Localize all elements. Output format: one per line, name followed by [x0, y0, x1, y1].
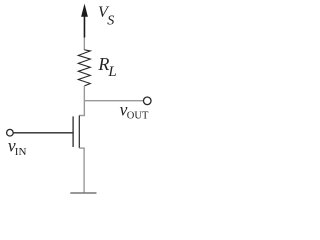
svg-text:L: L	[107, 64, 116, 80]
svg-text:S: S	[107, 14, 114, 29]
svg-text:OUT: OUT	[127, 110, 149, 121]
svg-text:IN: IN	[15, 146, 27, 158]
